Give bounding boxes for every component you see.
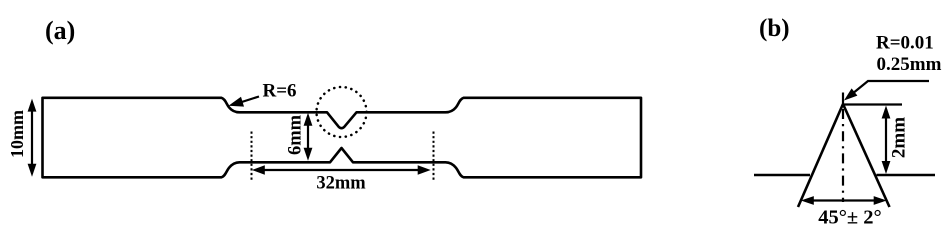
svg-text:R=6: R=6 (263, 81, 297, 102)
32mm dimension arrow (252, 165, 431, 175)
dotted extension line right (433, 132, 435, 181)
6mm dimension arrow (304, 113, 313, 161)
center line (dash-dot) (842, 109, 844, 202)
svg-text:0.25mm: 0.25mm (877, 54, 942, 75)
svg-text:2mm: 2mm (889, 117, 910, 158)
2mm extension line (844, 103, 903, 105)
svg-text:(b): (b) (759, 15, 790, 42)
leader arrow to notch tip (844, 81, 929, 101)
svg-text:R=0.01: R=0.01 (876, 33, 934, 54)
surface line left (754, 174, 810, 177)
45 degree dimension arrow (801, 196, 887, 205)
dotted extension line left (251, 132, 253, 181)
notch triangle (798, 93, 890, 208)
2mm dimension arrow (882, 106, 891, 175)
R=6 leader arrow (229, 97, 260, 107)
svg-text:45°± 2°: 45°± 2° (818, 207, 882, 229)
10mm dimension arrow (28, 99, 37, 177)
svg-text:6mm: 6mm (286, 114, 306, 155)
svg-text:32mm: 32mm (316, 174, 366, 194)
svg-text:10mm: 10mm (7, 110, 27, 158)
svg-text:(a): (a) (45, 16, 75, 45)
dotted circle around notch (317, 87, 367, 137)
specimen outline (43, 98, 642, 178)
surface line right (877, 174, 936, 177)
